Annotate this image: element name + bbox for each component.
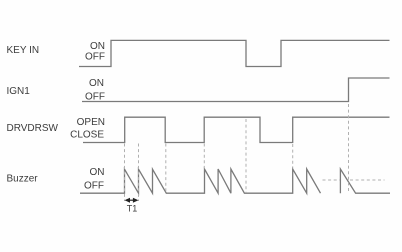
svg-text:T1: T1 (127, 203, 138, 213)
dashed guide vertical at DRVDRSW fall x=165.8 (165, 144, 167, 194)
svg-text:ON: ON (90, 41, 105, 52)
svg-text:CLOSE: CLOSE (70, 129, 104, 140)
wire IGN1 waveform (82, 78, 390, 102)
dashed guide horizontal continuation after final tooth (350, 179, 385, 181)
dashed guide horizontal continuation after burst3 (323, 179, 341, 181)
dashed guide vertical at IGN1 rise x=348.5 (348, 104, 350, 193)
wire Buzzer final tooth and OFF tail (340, 169, 390, 193)
svg-text:OPEN: OPEN (77, 117, 105, 128)
svg-text:OFF: OFF (84, 180, 104, 191)
svg-text:ON: ON (89, 78, 104, 89)
svg-text:OFF: OFF (85, 52, 105, 63)
dashed guide vertical at burst1 start x=124.5 (124, 144, 126, 202)
wire Buzzer waveform burst1 burst2 burst3 (80, 169, 321, 193)
svg-text:DRVDRSW: DRVDRSW (7, 123, 59, 134)
dashed guide vertical at first tooth end x=138.5 (138, 144, 140, 202)
svg-text:Buzzer: Buzzer (7, 174, 39, 185)
wire KEY IN waveform (79, 40, 390, 66)
dashed guide vertical at DRVDRSW rise x=292.7 (292, 144, 294, 169)
dashed guide vertical at DRVDRSW rise x=204.3 (203, 144, 205, 169)
svg-text:IGN1: IGN1 (7, 86, 31, 97)
T1 dimension arrow left head (125, 198, 131, 203)
wire DRVDRSW waveform (83, 117, 390, 142)
T1 dimension arrow right head (133, 198, 139, 203)
dashed guide vertical at KEY IN fall x=246 (245, 119, 247, 193)
svg-text:KEY IN: KEY IN (7, 45, 40, 56)
T1 dimension arrow shaft (126, 199, 137, 201)
svg-text:ON: ON (90, 167, 105, 178)
